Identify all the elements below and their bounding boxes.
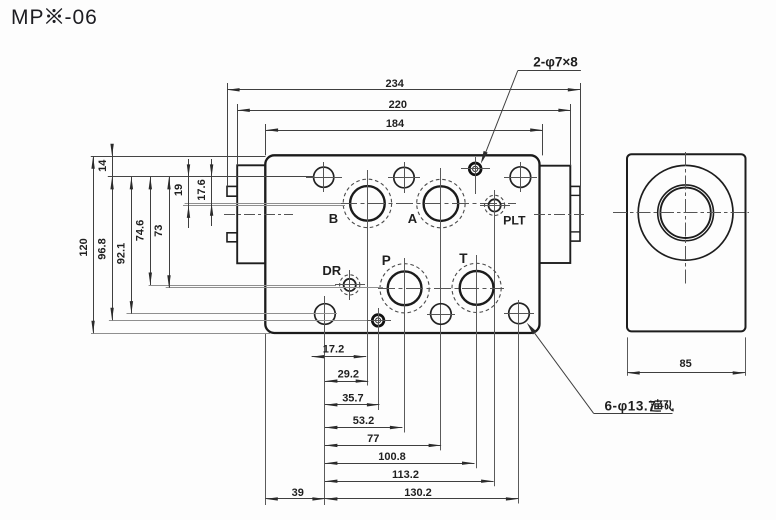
- svg-text:77: 77: [367, 433, 379, 445]
- svg-text:A: A: [408, 211, 418, 226]
- right bolt head: [570, 186, 580, 241]
- dim 234: [227, 89, 580, 91]
- dim 96.8: [112, 177, 114, 320]
- port A vertical centerline: [440, 168, 442, 450]
- dim 17.6: [211, 159, 213, 226]
- ext line top hole row to left: [108, 176, 314, 178]
- right mounting tab: [540, 166, 571, 263]
- P-T horizontal centerline: [378, 288, 504, 290]
- svg-text:6-φ13.7: 6-φ13.7: [605, 398, 657, 413]
- side view horizontal centerline: [613, 212, 749, 214]
- left tab centerline: [224, 214, 293, 216]
- dim 17.2: [312, 356, 367, 358]
- svg-text:73: 73: [153, 225, 165, 237]
- ext line 234 left: [227, 83, 229, 186]
- counterbore hole 2-phi7x8 bottom: [372, 315, 384, 327]
- ext line 234 right: [580, 83, 582, 186]
- svg-text:130.2: 130.2: [404, 487, 432, 499]
- hole top-middle small: [394, 167, 414, 187]
- ext line bottom hole row to left: [127, 313, 338, 315]
- ext line phi7 bottom to left: [109, 320, 367, 322]
- side view outer circle: [638, 165, 733, 260]
- svg-text:184: 184: [386, 118, 405, 130]
- dim 92.1: [131, 177, 133, 314]
- dim 220: [237, 110, 571, 112]
- port T: [460, 271, 494, 305]
- ext line 220 right: [570, 104, 572, 166]
- port PLT vertical centerline: [494, 190, 496, 486]
- svg-text:120: 120: [78, 238, 90, 256]
- dim 14: [112, 146, 114, 177]
- dim 184: [266, 130, 543, 132]
- port P vertical centerline: [404, 258, 406, 433]
- svg-text:19: 19: [173, 184, 185, 196]
- ext line 220 left: [237, 104, 239, 165]
- svg-text:92.1: 92.1: [116, 243, 128, 264]
- title MP*-06: [11, 6, 98, 29]
- ext line 184 left / plate edge ext: [265, 124, 267, 155]
- svg-text:85: 85: [679, 358, 691, 370]
- ext line PT level to left: [166, 287, 383, 289]
- phi7 bottom vertical centerline: [378, 308, 380, 410]
- ext line PLT level to left: [183, 205, 345, 207]
- dim 53.2: [325, 427, 403, 429]
- hole bottom-middle small: [431, 304, 452, 325]
- port DR: [344, 279, 356, 291]
- dim 85: [627, 337, 629, 375]
- dim 113.2: [325, 481, 494, 483]
- svg-text:MP: MP: [11, 6, 45, 29]
- ext line plate top to left: [91, 156, 266, 158]
- callout 2-phi7x8: [481, 55, 581, 164]
- ext line 184 right: [542, 124, 544, 155]
- svg-text:17.6: 17.6: [196, 179, 208, 200]
- dim 29.2: [325, 381, 368, 383]
- port A: [424, 186, 459, 221]
- hole top-left small: [314, 167, 334, 187]
- svg-text:74.6: 74.6: [135, 220, 147, 241]
- dim 73: [169, 177, 171, 288]
- hole bottom-left small: [315, 304, 336, 325]
- svg-text:PLT: PLT: [503, 214, 526, 228]
- hole top-right small: [510, 167, 531, 188]
- svg-text:113.2: 113.2: [392, 469, 419, 481]
- svg-text:14: 14: [97, 159, 109, 172]
- B-A horizontal centerline: [340, 203, 516, 205]
- ext line plate bottom to left: [91, 333, 270, 335]
- svg-text:100.8: 100.8: [378, 451, 406, 463]
- svg-text:39: 39: [292, 487, 304, 499]
- port T vertical centerline: [476, 255, 478, 468]
- port B vertical centerline: [367, 170, 369, 386]
- svg-text:53.2: 53.2: [353, 415, 374, 427]
- dim 100.8: [325, 463, 475, 465]
- hole bottom-right small: [509, 303, 530, 324]
- bottom-right hole vertical centerline: [518, 300, 520, 504]
- dim 120: [93, 156, 95, 333]
- svg-text:220: 220: [389, 99, 407, 111]
- left mounting tab: [237, 165, 265, 263]
- ext line plate left bottom: [265, 334, 267, 505]
- svg-text:17.2: 17.2: [323, 344, 344, 356]
- dim 39: [265, 498, 325, 500]
- left bolt head lower: [227, 233, 237, 242]
- port PLT: [489, 199, 501, 211]
- svg-text:DR: DR: [322, 263, 341, 278]
- dim 77: [325, 445, 441, 447]
- dim 74.6: [150, 177, 152, 285]
- left bolt head upper: [227, 186, 237, 196]
- svg-text:29.2: 29.2: [338, 369, 359, 381]
- side view inner ring: [658, 185, 714, 241]
- port P: [388, 271, 422, 305]
- dim 19: [188, 159, 190, 228]
- counterbore hole 2-phi7x8 top: [469, 163, 481, 175]
- ext line B down tail: [367, 385, 369, 387]
- port B: [350, 186, 385, 221]
- ext line DR level to left: [149, 285, 336, 287]
- callout 6-phi13.7 through hole: [527, 323, 673, 414]
- dim 35.7: [325, 404, 380, 406]
- svg-text:P: P: [382, 253, 391, 268]
- svg-text:234: 234: [386, 78, 405, 90]
- side view vertical centerline: [685, 152, 687, 285]
- side view body: [627, 154, 746, 331]
- svg-text:T: T: [459, 251, 468, 266]
- plate outline (front view): [265, 155, 539, 333]
- svg-text:35.7: 35.7: [342, 393, 363, 405]
- dim 130.2: [325, 498, 519, 500]
- svg-text:2-φ7×8: 2-φ7×8: [533, 55, 578, 70]
- right tab centerline: [534, 214, 584, 216]
- ext line BA centerline to left: [185, 203, 341, 205]
- svg-text:-06: -06: [65, 6, 98, 29]
- svg-text:B: B: [329, 211, 338, 226]
- ext line bottom-left hole down: [324, 330, 326, 505]
- svg-text:96.8: 96.8: [96, 238, 108, 259]
